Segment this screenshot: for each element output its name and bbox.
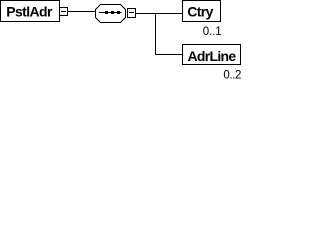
element box PstlAdr: [1, 1, 60, 22]
svg-text:PstlAdr: PstlAdr: [6, 4, 53, 20]
expand button (minus) on PstlAdr: [60, 8, 68, 16]
svg-text:AdrLine: AdrLine: [188, 48, 237, 64]
expand button (minus) on sequence: [128, 9, 136, 18]
wire from branch to AdrLine: [155, 54, 183, 56]
svg-text:0..2: 0..2: [223, 69, 241, 81]
svg-text:0..1: 0..1: [203, 26, 222, 38]
svg-text:Ctry: Ctry: [187, 4, 213, 20]
element box Ctry: [183, 1, 221, 22]
vertical branch wire: [155, 13, 157, 55]
sequence compositor symbol: [96, 5, 126, 23]
wire from expand button to sequence compositor: [67, 11, 96, 13]
wire from sequence to branch and Ctry: [135, 13, 183, 15]
element box AdrLine: [183, 45, 241, 65]
